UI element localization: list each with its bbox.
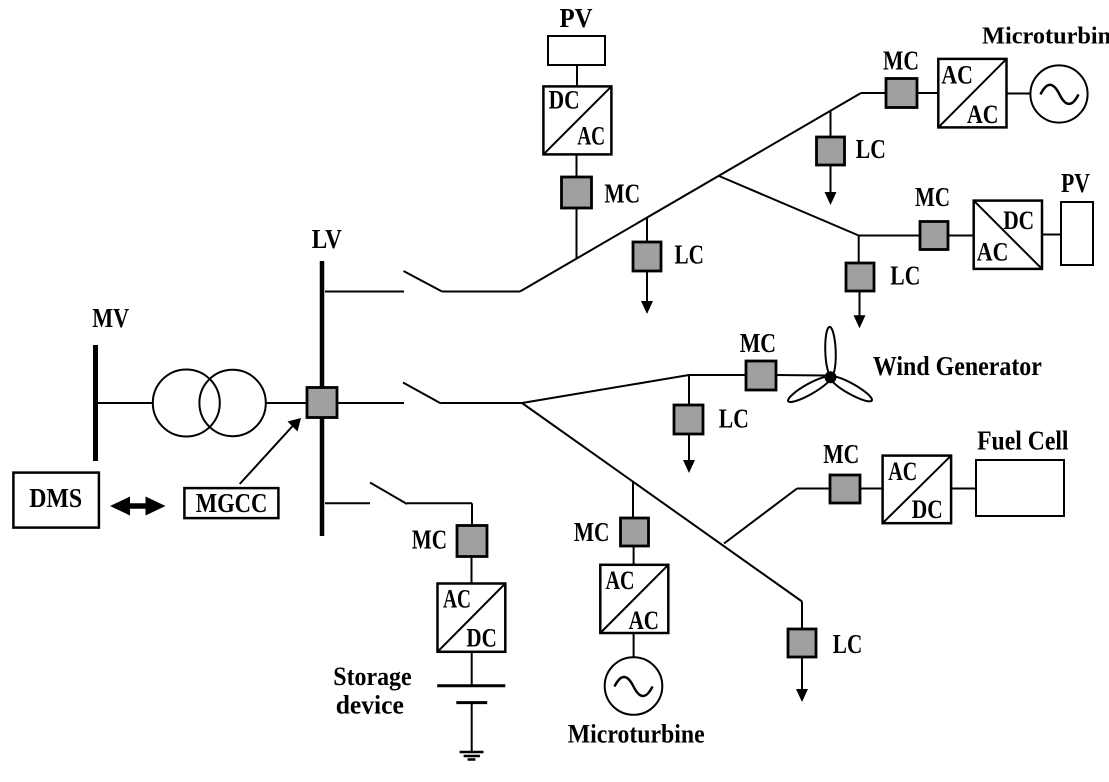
svg-text:Fuel Cell: Fuel Cell [977, 425, 1069, 455]
svg-text:AC: AC [629, 606, 659, 635]
svg-text:Wind Generator: Wind Generator [873, 351, 1042, 381]
svg-text:MC: MC [883, 45, 919, 75]
svg-text:Microturbine: Microturbine [982, 24, 1109, 50]
svg-text:LV: LV [312, 224, 343, 254]
svg-text:AC: AC [606, 566, 635, 595]
svg-text:AC: AC [443, 585, 471, 614]
svg-text:DC: DC [912, 495, 943, 524]
svg-text:MV: MV [92, 303, 129, 333]
svg-text:MC: MC [740, 328, 776, 358]
svg-text:DC: DC [549, 86, 580, 115]
svg-text:MC: MC [823, 439, 859, 469]
svg-text:DC: DC [466, 624, 496, 653]
svg-text:PV: PV [560, 3, 593, 33]
svg-text:LC: LC [833, 629, 863, 659]
svg-text:LC: LC [856, 134, 886, 164]
svg-text:PV: PV [1061, 168, 1090, 198]
svg-text:LC: LC [675, 240, 704, 270]
svg-text:MC: MC [574, 517, 610, 547]
svg-text:MC: MC [604, 179, 640, 209]
svg-text:Microturbine: Microturbine [568, 720, 705, 749]
svg-text:LC: LC [890, 260, 920, 290]
svg-text:DMS: DMS [29, 483, 82, 513]
svg-text:MC: MC [412, 525, 447, 555]
svg-text:MGCC: MGCC [196, 488, 268, 518]
svg-text:device: device [336, 691, 404, 720]
svg-text:LC: LC [719, 404, 749, 434]
svg-text:AC: AC [888, 457, 917, 486]
svg-text:MC: MC [915, 182, 950, 212]
svg-text:AC: AC [941, 60, 973, 89]
svg-text:AC: AC [977, 237, 1009, 266]
svg-text:AC: AC [967, 100, 999, 129]
svg-text:DC: DC [1003, 206, 1034, 235]
svg-text:Storage: Storage [333, 662, 411, 691]
svg-text:AC: AC [577, 122, 605, 151]
